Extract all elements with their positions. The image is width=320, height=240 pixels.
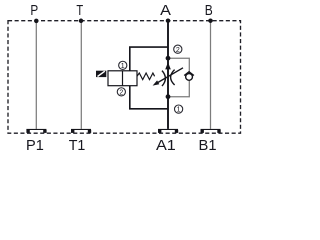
svg-text:T1: T1: [69, 138, 86, 154]
svg-text:A1: A1: [156, 138, 176, 154]
svg-text:2: 2: [176, 47, 180, 54]
svg-text:1: 1: [177, 107, 181, 114]
svg-text:2: 2: [119, 89, 123, 96]
svg-text:P: P: [30, 3, 38, 19]
svg-text:B: B: [205, 3, 213, 19]
svg-text:1: 1: [121, 63, 125, 70]
svg-text:P1: P1: [26, 138, 44, 154]
svg-text:B1: B1: [199, 138, 217, 154]
svg-text:T: T: [76, 3, 83, 19]
svg-text:A: A: [160, 3, 171, 19]
